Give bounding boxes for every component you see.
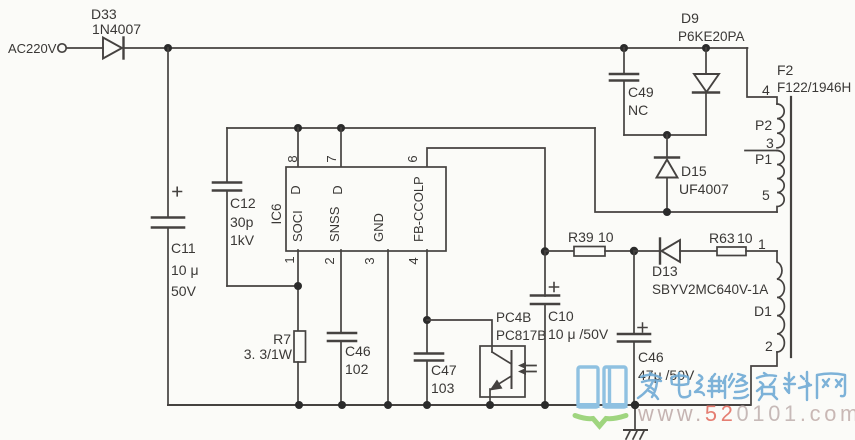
wire rail right drop to D15 net xyxy=(595,128,777,212)
pin 3 wire xyxy=(362,250,388,405)
pin 6 wire to R39 node xyxy=(405,148,545,251)
svg-text:30p: 30p xyxy=(230,214,254,230)
capacitor C49 NC xyxy=(610,48,654,135)
svg-text:NC: NC xyxy=(628,102,648,118)
svg-text:D9: D9 xyxy=(681,10,699,26)
watermark green swoosh xyxy=(575,416,626,427)
wire pin4 node to optocoupler collector xyxy=(427,320,492,352)
node junction pin8 rail xyxy=(294,124,302,132)
svg-text:C47: C47 xyxy=(431,362,457,378)
transformer primary P1 xyxy=(755,151,784,213)
svg-text:IC6: IC6 xyxy=(269,203,284,224)
svg-text:SNSS: SNSS xyxy=(327,206,342,242)
pin 2 wire xyxy=(322,250,341,333)
node junction top-left xyxy=(164,44,172,52)
svg-text:P2: P2 xyxy=(755,117,772,133)
node junction C49 top xyxy=(620,44,628,52)
optocoupler PC4B PC817B xyxy=(480,310,546,405)
svg-text:UF4007: UF4007 xyxy=(679,181,729,197)
capacitor C10 10u/50V xyxy=(531,251,609,405)
IC IC6 power controller xyxy=(269,167,446,251)
watermark www.520101.com xyxy=(637,401,855,426)
svg-text:4: 4 xyxy=(406,257,421,264)
capacitor C46 102 xyxy=(328,333,371,405)
svg-text:R7: R7 xyxy=(273,331,291,347)
resistor R39 10 xyxy=(545,229,634,256)
svg-text:4: 4 xyxy=(762,82,770,98)
wire D33 to top rail xyxy=(125,47,748,49)
svg-text:2: 2 xyxy=(322,257,337,264)
diode D9 P6KE20PA xyxy=(678,10,745,135)
svg-text:www.520101.com: www.520101.com xyxy=(637,401,855,426)
svg-text:C46: C46 xyxy=(345,343,371,359)
svg-text:102: 102 xyxy=(345,361,369,377)
svg-text:P6KE20PA: P6KE20PA xyxy=(678,29,745,44)
svg-text:3: 3 xyxy=(362,257,377,264)
wire C49/D9 bottom link xyxy=(624,134,706,136)
ground xyxy=(624,405,647,439)
wire bottom bus xyxy=(168,404,750,406)
wire C12 bottom to pin1 xyxy=(227,285,298,287)
node junction pin7 rail xyxy=(337,124,345,132)
node junction D15 top xyxy=(663,131,671,139)
pin 4 wire xyxy=(406,250,431,353)
node junction D15 bottom xyxy=(663,208,671,216)
svg-text:SBYV2MC640V-1A: SBYV2MC640V-1A xyxy=(652,282,768,297)
svg-text:10: 10 xyxy=(598,229,614,245)
svg-text:D33: D33 xyxy=(91,6,117,22)
svg-text:C46: C46 xyxy=(638,349,664,365)
svg-text:D15: D15 xyxy=(681,163,707,179)
node AC220V input terminal xyxy=(8,41,66,56)
pin 7 xyxy=(324,128,341,166)
svg-text:8: 8 xyxy=(285,155,300,162)
transformer F2 F122/1946H primary P2 xyxy=(755,62,851,148)
pin 1 wire xyxy=(282,250,302,330)
svg-text:50V: 50V xyxy=(171,283,197,299)
svg-text:10: 10 xyxy=(737,230,753,246)
transformer secondary D1 xyxy=(754,236,784,354)
svg-text:5: 5 xyxy=(762,187,770,203)
svg-text:1: 1 xyxy=(282,256,297,263)
svg-text:FB-CCOLP: FB-CCOLP xyxy=(411,176,426,242)
node bus junctions xyxy=(295,401,639,409)
capacitor C46 47u/50V xyxy=(618,251,695,405)
svg-text:C12: C12 xyxy=(230,195,256,211)
svg-text:3. 3/1W: 3. 3/1W xyxy=(244,346,293,362)
svg-text:1kV: 1kV xyxy=(230,232,255,248)
watermark book icon xyxy=(578,367,626,407)
diode D13 SBYV2MC640V-1A xyxy=(634,239,768,298)
svg-text:1: 1 xyxy=(758,236,766,252)
svg-text:10 μ /50V: 10 μ /50V xyxy=(548,326,609,342)
svg-text:3: 3 xyxy=(766,135,774,151)
svg-text:D: D xyxy=(288,185,303,194)
node R39/C10 junction xyxy=(541,247,549,255)
svg-text:6: 6 xyxy=(405,155,420,162)
svg-text:103: 103 xyxy=(431,380,455,396)
svg-text:GND: GND xyxy=(371,213,386,242)
wire top rail corner to transformer pin 4 xyxy=(747,48,777,104)
capacitor C47 103 xyxy=(415,354,457,406)
svg-text:AC220V: AC220V xyxy=(8,41,57,56)
svg-text:C10: C10 xyxy=(548,308,574,324)
diode D33 1N4007 xyxy=(91,6,141,59)
transformer pin 3 tap xyxy=(745,135,777,151)
svg-text:2: 2 xyxy=(765,338,773,354)
node junction D9 top xyxy=(702,44,710,52)
wire down to C11 xyxy=(167,48,169,217)
capacitor C11 10u/50V xyxy=(152,187,199,299)
watermark chinese characters xyxy=(638,372,845,400)
svg-text:D1: D1 xyxy=(754,303,772,319)
svg-text:P1: P1 xyxy=(755,151,772,167)
resistor R7 3.3/1W xyxy=(244,331,306,405)
diode D15 UF4007 xyxy=(655,135,729,212)
pin 8 xyxy=(285,128,300,166)
capacitor C12 30p 1kV xyxy=(213,128,256,286)
wire D1 bottom to bus xyxy=(751,352,777,405)
svg-text:R39: R39 xyxy=(568,229,594,245)
svg-text:C11: C11 xyxy=(171,240,196,256)
wire input to D33 xyxy=(67,47,104,49)
svg-text:R63: R63 xyxy=(709,230,735,246)
svg-text:PC817B: PC817B xyxy=(496,328,546,343)
svg-text:SOCI: SOCI xyxy=(290,210,305,242)
svg-text:F122/1946H: F122/1946H xyxy=(777,80,851,95)
svg-text:7: 7 xyxy=(324,155,339,162)
svg-text:F2: F2 xyxy=(777,62,794,78)
svg-text:D: D xyxy=(330,185,345,194)
wire C11 to bottom bus xyxy=(167,228,169,406)
resistor R63 10 xyxy=(709,230,777,256)
svg-text:10 μ: 10 μ xyxy=(171,262,199,278)
svg-text:1N4007: 1N4007 xyxy=(92,21,141,37)
wire IC top rail xyxy=(227,127,595,129)
svg-text:PC4B: PC4B xyxy=(496,310,531,325)
node D13/C46 junction xyxy=(630,247,638,255)
transformer core xyxy=(790,97,792,357)
svg-text:D13: D13 xyxy=(652,263,678,279)
svg-text:C49: C49 xyxy=(628,84,654,100)
